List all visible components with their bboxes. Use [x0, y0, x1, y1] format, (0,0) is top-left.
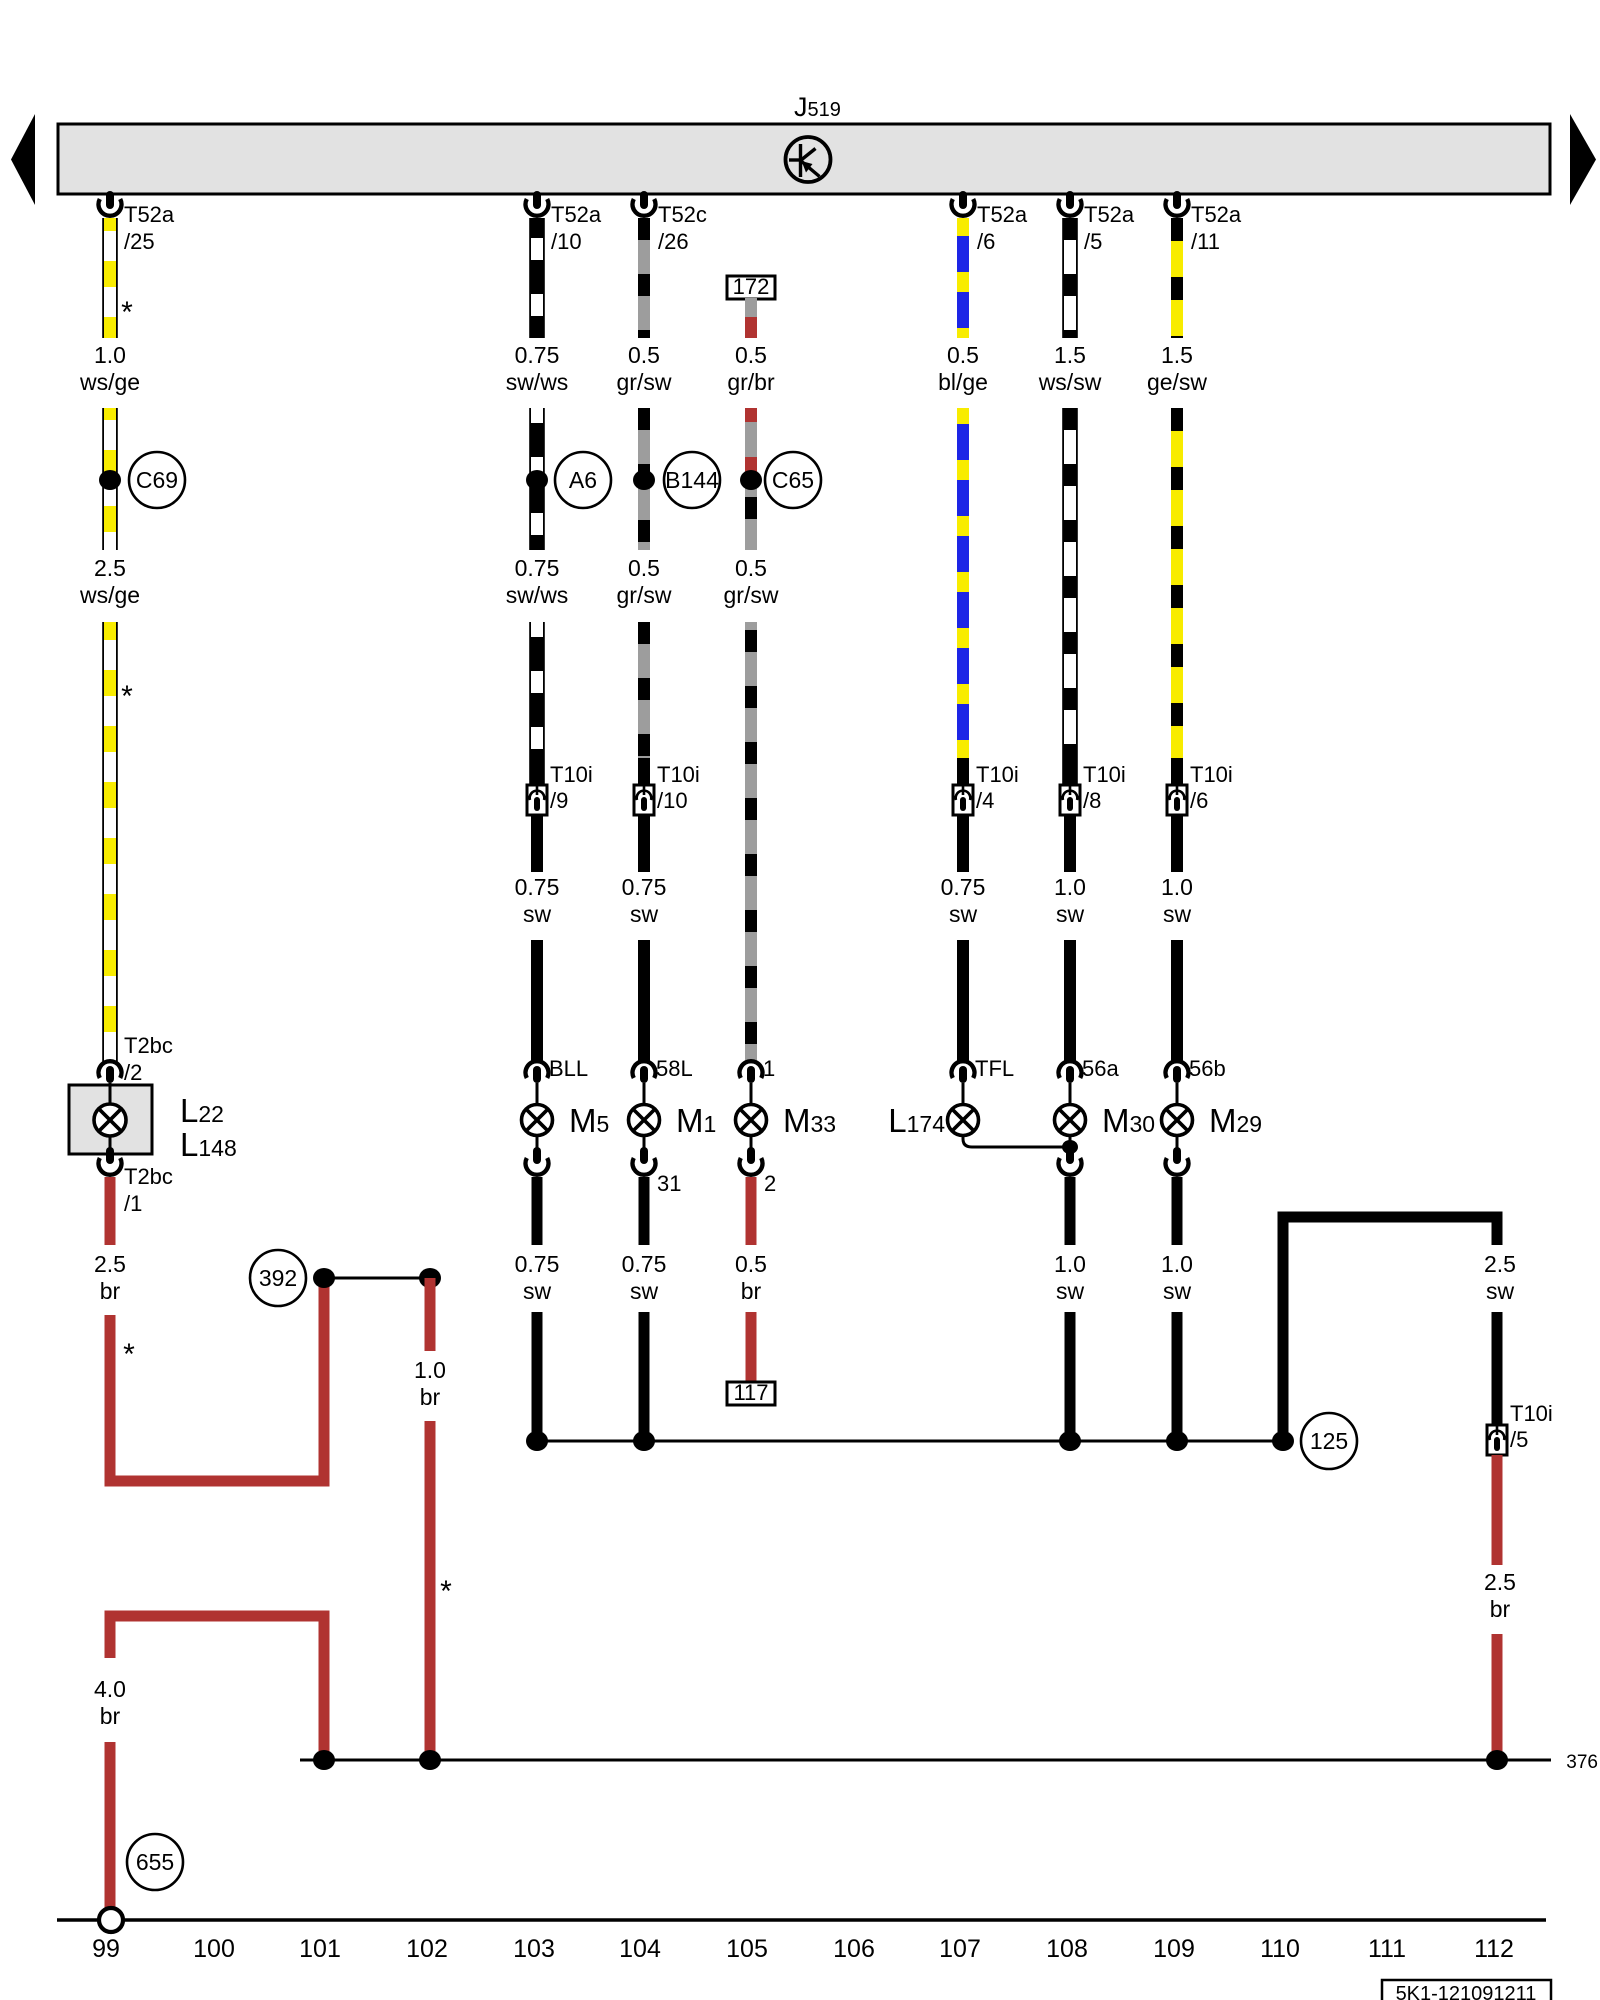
lead wire into bulb L22 [109, 1083, 112, 1105]
wire sw to lamp terminal [531, 940, 543, 1063]
svg-text:56b: 56b [1189, 1056, 1226, 1081]
svg-text:1.5: 1.5 [1161, 342, 1193, 368]
svg-text:*: * [121, 680, 133, 713]
wiring junction B144 [664, 452, 720, 508]
label 0.5 bl/ge [938, 342, 988, 395]
connector T10i/5 [1487, 1401, 1553, 1455]
junction L174/M30 [1062, 1140, 1078, 1154]
lead wire out of bulb L22 [109, 1136, 112, 1148]
wire sw to ground bus [532, 1312, 543, 1441]
terminal T52a/11 on J519 [1166, 191, 1242, 254]
wire sw below T10i [1171, 815, 1183, 872]
wire br 2.5 below L22 [105, 1177, 116, 1245]
svg-text:A6: A6 [569, 467, 597, 493]
wire br 2.5 below T10i/5 [1492, 1455, 1503, 1565]
label 0.5 gr/sw (3) [724, 555, 779, 608]
label 0.75 sw/ws (2) [506, 555, 569, 608]
wire bl/ge 0.5 from T52a/6 [957, 218, 969, 338]
svg-text:ge/sw: ge/sw [1147, 369, 1207, 395]
terminal 56b of M29 [1166, 1056, 1226, 1083]
svg-text:ws/ge: ws/ge [79, 582, 140, 608]
svg-text:gr/sw: gr/sw [617, 582, 672, 608]
svg-text:C69: C69 [136, 467, 178, 493]
label 2.5 br right [1484, 1569, 1516, 1622]
node A6 junction [526, 470, 548, 490]
wire sw to lamp terminal [1171, 940, 1183, 1063]
wire ws/ge to T2bc/2 [103, 622, 117, 1063]
svg-text:TFL: TFL [975, 1056, 1014, 1081]
bulb M5 [522, 1105, 553, 1136]
lead wire into lamp at x=751 [750, 1083, 753, 1105]
part number box 5K1-121091211 [1382, 1980, 1551, 2000]
svg-text:sw: sw [1486, 1278, 1515, 1304]
wire ws/sw 1.5 from T52a/5 [1063, 218, 1077, 338]
wire br 4.0 to ground [105, 1742, 116, 1908]
label 1.0 sw [1054, 874, 1086, 927]
wire sw/ws 0.75 from T52a/10 [530, 218, 544, 338]
label 2.5 sw [1484, 1251, 1516, 1304]
wire sw/ws through A6 [530, 408, 544, 550]
label 1.5 ge/sw [1147, 342, 1207, 395]
svg-text:/5: /5 [1510, 1427, 1528, 1452]
wire sw to ground bus (4) [1172, 1312, 1183, 1441]
bottom terminal of M5 [526, 1147, 549, 1175]
bus node col 104 [633, 1431, 655, 1451]
ground bus wire to 125 [537, 1440, 1283, 1443]
terminal 1 of M33 [740, 1056, 776, 1083]
label 1.0 sw below M30 [1054, 1251, 1086, 1304]
svg-text:br: br [1490, 1596, 1511, 1622]
terminal T2bc/2 of L22 [99, 1033, 173, 1085]
label 2.5 br [94, 1251, 126, 1304]
lead wire into lamp at x=537 [536, 1083, 539, 1105]
connector T10i/8 [1060, 762, 1126, 815]
svg-text:0.75: 0.75 [515, 555, 560, 581]
ground rail [57, 1918, 1546, 1922]
svg-text:*: * [121, 296, 133, 329]
svg-text:172: 172 [733, 274, 770, 299]
wire br to connection 117 [746, 1312, 757, 1382]
svg-text:/5: /5 [1084, 229, 1102, 254]
svg-text:C65: C65 [772, 467, 814, 493]
svg-text:110: 110 [1260, 1935, 1300, 1963]
svg-text:gr/sw: gr/sw [617, 369, 672, 395]
wire gr/sw through B144 [638, 408, 650, 550]
wire br 1.0 to ground point [425, 1421, 436, 1760]
wire br 4.0 ground run [110, 1616, 324, 1755]
svg-text:L148: L148 [180, 1126, 237, 1163]
lead wire into lamp at x=1177 [1176, 1083, 1179, 1105]
grid numbers 99-112 [92, 1935, 1514, 1963]
svg-text:T10i: T10i [1083, 762, 1126, 787]
wire sw 1.0 below M29 [1172, 1177, 1183, 1245]
svg-text:1.0: 1.0 [1161, 1251, 1193, 1277]
wire gr/sw out of C65 [745, 480, 757, 550]
wire gr/sw 0.5 from T52c/26 [638, 218, 650, 338]
terminal T52a/5 on J519 [1059, 191, 1135, 254]
wire black tip above T10i at x=1177 [1171, 758, 1183, 785]
label 0.75 sw (2) [622, 874, 667, 927]
svg-text:sw: sw [1056, 901, 1085, 927]
wire sw 2.5 overhead run [1283, 1217, 1497, 1436]
wire br 0.5 below M33 [746, 1177, 757, 1245]
terminal 56a of M30 [1059, 1056, 1120, 1083]
terminal 31 of M1 [633, 1147, 682, 1196]
label 4.0 br [94, 1676, 126, 1729]
svg-text:*: * [123, 1338, 135, 1371]
svg-text:99: 99 [92, 1935, 120, 1963]
wire gr/br into C65 [745, 408, 757, 480]
svg-text:T52c: T52c [658, 202, 707, 227]
wire sw 1.0 below M30 [1065, 1177, 1076, 1245]
label 0.5 gr/sw (2) [617, 555, 672, 608]
svg-text:T10i: T10i [1510, 1401, 1553, 1426]
bulb L174 [948, 1105, 979, 1136]
svg-text:112: 112 [1474, 1935, 1514, 1963]
terminal T52a/10 on J519 [526, 191, 602, 254]
svg-text:sw/ws: sw/ws [506, 582, 569, 608]
terminal 2 of M33 [740, 1147, 777, 1196]
svg-text:sw: sw [630, 901, 659, 927]
wire sw 0.75 below M5 [532, 1177, 543, 1245]
wire gr/sw to T10i/10 [638, 622, 650, 785]
svg-text:2.5: 2.5 [94, 1251, 126, 1277]
svg-text:br: br [100, 1703, 121, 1729]
svg-text:sw: sw [1056, 1278, 1085, 1304]
svg-text:/2: /2 [124, 1060, 142, 1085]
svg-text:/4: /4 [976, 788, 994, 813]
lamp housing L22 L148 [69, 1085, 152, 1154]
wire black tip above T10i at x=537 [531, 758, 543, 785]
bulb M1 [629, 1105, 660, 1136]
electronics symbol in J519 [786, 137, 831, 182]
wiring junction C65 [765, 452, 821, 508]
svg-text:2.5: 2.5 [1484, 1251, 1516, 1277]
wire sw to ground bus (3) [1065, 1312, 1076, 1441]
svg-text:T10i: T10i [976, 762, 1019, 787]
svg-text:1: 1 [763, 1056, 775, 1081]
svg-text:J519: J519 [794, 92, 841, 122]
svg-text:125: 125 [1310, 1428, 1348, 1454]
ground connection 655 [127, 1834, 183, 1890]
wire sw below T10i [638, 815, 650, 872]
svg-text:B144: B144 [665, 467, 719, 493]
svg-text:gr/br: gr/br [727, 369, 775, 395]
bus node col 110 [1272, 1431, 1294, 1451]
svg-text:1.0: 1.0 [94, 342, 126, 368]
wiring junction A6 [555, 452, 611, 508]
wire bl/ge to T10i/4 [957, 408, 969, 785]
svg-text:1.0: 1.0 [1054, 1251, 1086, 1277]
wire sw/ws to T10i/9 [530, 622, 544, 785]
bottom terminal of M30 [1059, 1147, 1082, 1175]
svg-text:105: 105 [726, 1935, 768, 1963]
lead wire into lamp at x=644 [643, 1083, 646, 1105]
connector T10i/6 [1167, 762, 1233, 815]
label 0.75 sw/ws [506, 342, 569, 395]
svg-text:*: * [440, 1575, 452, 1608]
lead wire out of lamp at x=537 [536, 1136, 539, 1148]
bulb L22 L148 [94, 1104, 126, 1136]
wire gr/br 0.5 from connection 172 [745, 298, 757, 338]
label 1.0 br [414, 1357, 446, 1410]
svg-text:106: 106 [833, 1935, 875, 1963]
svg-text:gr/sw: gr/sw [724, 582, 779, 608]
link wire to ground point 376 [300, 1759, 1551, 1762]
svg-text:M1: M1 [676, 1102, 716, 1139]
svg-text:sw: sw [1163, 1278, 1192, 1304]
svg-text:sw: sw [523, 1278, 552, 1304]
svg-text:0.75: 0.75 [515, 874, 560, 900]
svg-text:0.75: 0.75 [941, 874, 986, 900]
wire br 1.0 stub [425, 1278, 436, 1351]
wire sw 0.75 below M1 [639, 1177, 650, 1245]
svg-text:/1: /1 [124, 1191, 142, 1216]
bulb M33 [736, 1105, 767, 1136]
wire ge/sw to T10i/6 [1171, 408, 1183, 785]
wire black tip above T10i at x=644 [638, 758, 650, 785]
label 1.0 sw below M29 [1161, 1251, 1193, 1304]
svg-text:117: 117 [733, 1380, 768, 1405]
svg-text:M33: M33 [783, 1102, 836, 1139]
svg-text:sw: sw [630, 1278, 659, 1304]
svg-text:M29: M29 [1209, 1102, 1262, 1139]
terminal T2bc/1 of L22 [99, 1147, 173, 1216]
label 0.75 sw (3) [941, 874, 986, 927]
ground symbol col 99 [99, 1908, 123, 1932]
svg-text:111: 111 [1368, 1935, 1406, 1963]
terminal T52a/25 on J519 [99, 191, 175, 254]
node C69 junction [99, 470, 121, 490]
svg-text:31: 31 [657, 1171, 681, 1196]
label 1.0 sw (2) [1161, 874, 1193, 927]
svg-text:T52a: T52a [1191, 202, 1242, 227]
svg-text:392: 392 [259, 1265, 297, 1291]
bus node col 109 [1166, 1431, 1188, 1451]
wire sw below T10i [1064, 815, 1076, 872]
svg-text:sw/ws: sw/ws [506, 369, 569, 395]
svg-text:/25: /25 [124, 229, 155, 254]
svg-text:100: 100 [193, 1935, 235, 1963]
page-continuation arrow left [11, 114, 35, 205]
ground connection 392 [250, 1250, 306, 1306]
svg-text:T10i: T10i [657, 762, 700, 787]
connection 172 [727, 274, 775, 299]
svg-text:/10: /10 [551, 229, 582, 254]
svg-text:0.5: 0.5 [628, 555, 660, 581]
svg-text:108: 108 [1046, 1935, 1088, 1963]
svg-text:103: 103 [513, 1935, 555, 1963]
svg-text:br: br [100, 1278, 121, 1304]
label 0.75 sw below M1 [622, 1251, 667, 1304]
node col 102 on link [419, 1750, 441, 1770]
terminal T52a/6 on J519 [952, 191, 1028, 254]
wire ws/ge to C69 [103, 408, 117, 550]
svg-text:T52a: T52a [124, 202, 175, 227]
svg-text:4.0: 4.0 [94, 1676, 126, 1702]
svg-text:L22: L22 [180, 1092, 224, 1129]
svg-text:0.5: 0.5 [735, 555, 767, 581]
svg-text:102: 102 [406, 1935, 448, 1963]
bulb M29 [1162, 1105, 1193, 1136]
svg-text:2.5: 2.5 [94, 555, 126, 581]
terminal BLL of M5 [526, 1056, 589, 1083]
svg-text:sw: sw [523, 901, 552, 927]
bulb M30 [1055, 1105, 1086, 1136]
svg-text:2.5: 2.5 [1484, 1569, 1516, 1595]
label 0.75 sw below M5 [515, 1251, 560, 1304]
lead wire out of lamp at x=1177 [1176, 1136, 1179, 1148]
node at col 102 [419, 1268, 441, 1288]
wire black tip above T10i at x=1070 [1064, 758, 1076, 785]
svg-text:T10i: T10i [550, 762, 593, 787]
svg-text:M5: M5 [569, 1102, 609, 1139]
svg-text:/6: /6 [977, 229, 995, 254]
svg-text:bl/ge: bl/ge [938, 369, 988, 395]
svg-text:/6: /6 [1190, 788, 1208, 813]
label 0.5 gr/br [727, 342, 775, 395]
svg-text:T2bc: T2bc [124, 1164, 173, 1189]
svg-text:0.5: 0.5 [628, 342, 660, 368]
wire ge/sw 1.5 from T52a/11 [1171, 218, 1183, 338]
wire sw below T10i [957, 815, 969, 872]
svg-text:109: 109 [1153, 1935, 1195, 1963]
control unit J519 bar [58, 124, 1550, 194]
svg-text:BLL: BLL [549, 1056, 588, 1081]
label 1.0 ws/ge [79, 342, 140, 395]
svg-text:0.5: 0.5 [947, 342, 979, 368]
svg-text:5K1-121091211: 5K1-121091211 [1396, 1983, 1537, 2000]
svg-text:1.0: 1.0 [1054, 874, 1086, 900]
bus node col 103 [526, 1431, 548, 1451]
lead wire into lamp at x=1070 [1069, 1083, 1072, 1105]
svg-text:/8: /8 [1083, 788, 1101, 813]
svg-text:58L: 58L [656, 1056, 693, 1081]
node col 101 on link [313, 1750, 335, 1770]
svg-text:T2bc: T2bc [124, 1033, 173, 1058]
svg-text:1.5: 1.5 [1054, 342, 1086, 368]
svg-text:ws/ge: ws/ge [79, 369, 140, 395]
svg-text:/11: /11 [1191, 229, 1220, 254]
label 0.75 sw [515, 874, 560, 927]
wire sw to lamp terminal [1064, 940, 1076, 1063]
terminal T52c/26 on J519 [633, 191, 707, 254]
link 392 junctions [324, 1277, 430, 1280]
page-continuation arrow right [1570, 114, 1596, 205]
svg-text:655: 655 [136, 1849, 174, 1875]
svg-text:0.5: 0.5 [735, 1251, 767, 1277]
wire sw below T10i [531, 815, 543, 872]
lead wire out of lamp at x=1070 [1069, 1136, 1072, 1148]
node 392 junction [313, 1268, 335, 1288]
svg-text:L174: L174 [888, 1102, 945, 1139]
lead wire out of lamp at x=644 [643, 1136, 646, 1148]
svg-text:0.75: 0.75 [622, 874, 667, 900]
svg-text:M30: M30 [1102, 1102, 1155, 1139]
svg-text:0.5: 0.5 [735, 342, 767, 368]
svg-text:2: 2 [764, 1171, 776, 1196]
svg-text:101: 101 [299, 1935, 341, 1963]
wire sw to ground bus (2) [639, 1312, 650, 1441]
label 0.5 br below M33 [735, 1251, 767, 1304]
wire br 2.5 to ground point 376 [1492, 1634, 1503, 1760]
svg-text:T52a: T52a [551, 202, 602, 227]
svg-text:sw: sw [1163, 901, 1192, 927]
terminal 58L of M1 [633, 1056, 693, 1083]
node col 112 on link [1486, 1750, 1508, 1770]
label 0.5 gr/sw [617, 342, 672, 395]
lead wire into lamp at x=963 [962, 1083, 965, 1105]
connector T10i/9 [527, 762, 593, 815]
wire link L174 to M30 [963, 1135, 1070, 1147]
terminal TFL of L174 [952, 1056, 1015, 1083]
bus node col 108 [1059, 1431, 1081, 1451]
svg-text:1.0: 1.0 [1161, 874, 1193, 900]
label 1.5 ws/sw [1038, 342, 1102, 395]
svg-text:/26: /26 [658, 229, 689, 254]
bottom terminal of M29 [1166, 1147, 1189, 1175]
connector T10i/10 [634, 762, 700, 815]
svg-text:0.75: 0.75 [515, 1251, 560, 1277]
svg-text:T52a: T52a [1084, 202, 1135, 227]
svg-text:br: br [741, 1278, 762, 1304]
svg-text:104: 104 [619, 1935, 661, 1963]
svg-text:/10: /10 [657, 788, 688, 813]
wire ws/ge 1.0 from T52a/25 [103, 218, 117, 338]
svg-text:T10i: T10i [1190, 762, 1233, 787]
svg-text:376: 376 [1566, 1752, 1598, 1773]
wire sw to lamp terminal [638, 940, 650, 1063]
svg-text:107: 107 [939, 1935, 981, 1963]
wiring junction C69 [129, 452, 185, 508]
svg-text:0.75: 0.75 [622, 1251, 667, 1277]
svg-text:56a: 56a [1082, 1056, 1119, 1081]
wire ws/sw to T10i/8 [1063, 408, 1077, 785]
label 2.5 ws/ge [79, 555, 140, 608]
svg-text:sw: sw [949, 901, 978, 927]
svg-text:/9: /9 [550, 788, 568, 813]
wire gr/sw to M33 terminal 1 [745, 622, 757, 1063]
connection 117 [727, 1380, 775, 1405]
node C65 junction [740, 470, 762, 490]
wire sw to lamp terminal [957, 940, 969, 1063]
svg-text:br: br [420, 1384, 441, 1410]
svg-text:ws/sw: ws/sw [1038, 369, 1102, 395]
wire br U-loop to node 392 [110, 1283, 324, 1481]
ground connection 125 [1301, 1413, 1357, 1469]
svg-text:0.75: 0.75 [515, 342, 560, 368]
svg-text:1.0: 1.0 [414, 1357, 446, 1383]
wire black tip above T10i at x=963 [957, 758, 969, 785]
svg-text:T52a: T52a [977, 202, 1028, 227]
lead wire out of lamp at x=751 [750, 1136, 753, 1148]
connector T10i/4 [953, 762, 1019, 815]
wire sw 2.5 to T10i/5 [1492, 1312, 1503, 1425]
node B144 junction [633, 470, 655, 490]
